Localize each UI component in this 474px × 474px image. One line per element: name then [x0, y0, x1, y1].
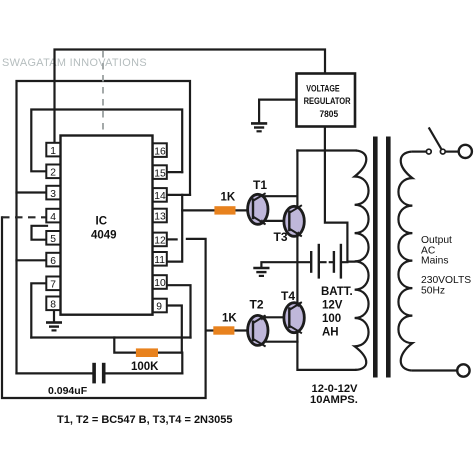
svg-text:14: 14	[154, 191, 166, 202]
svg-text:0.094uF: 0.094uF	[48, 385, 88, 397]
wire T2 emitter to T4 base	[263, 316, 289, 318]
ground at battery minus	[253, 268, 269, 276]
ground below regulator wire	[251, 123, 267, 131]
svg-text:4: 4	[50, 212, 56, 223]
pin 13	[153, 209, 167, 223]
wire T1 emitter to T3 base	[263, 220, 290, 222]
svg-text:SWAGATAM INNOVATIONS: SWAGATAM INNOVATIONS	[2, 57, 147, 69]
switch pivot circle	[440, 149, 445, 154]
svg-text:BATT.: BATT.	[321, 286, 353, 298]
svg-text:8: 8	[50, 300, 56, 311]
svg-text:12V: 12V	[322, 299, 343, 311]
pin 11	[153, 252, 167, 266]
svg-text:12-0-12V: 12-0-12V	[312, 383, 359, 395]
svg-text:2: 2	[50, 168, 56, 179]
resistor R3 100K	[136, 348, 158, 357]
pin 16	[153, 143, 167, 157]
pin 12	[153, 233, 167, 247]
pin 5	[46, 231, 60, 245]
wire battery internal and right	[320, 261, 348, 263]
wire bus top to primary coil top	[297, 149, 355, 151]
wire pin14	[167, 194, 190, 196]
svg-text:4049: 4049	[91, 230, 117, 242]
svg-text:10: 10	[154, 278, 166, 289]
svg-text:VOLTAGE: VOLTAGE	[306, 83, 339, 94]
wire T1 collector to bus	[264, 195, 298, 197]
wire regulator bottom down to battery plus	[325, 127, 355, 262]
pin 10	[153, 275, 167, 289]
IC 4049 body	[61, 136, 153, 315]
svg-text:7805: 7805	[320, 108, 339, 119]
svg-text:T4: T4	[281, 289, 295, 303]
svg-text:5: 5	[50, 234, 56, 245]
wire pin9 down to 100K right and capacitor	[167, 306, 182, 353]
svg-text:1: 1	[50, 146, 56, 157]
wire T2 collector to bus	[264, 341, 298, 343]
wire top line pin1 to voltage regulator	[55, 50, 326, 142]
transformer secondary winding	[398, 152, 412, 371]
wire pin6	[17, 259, 48, 261]
svg-text:Mains: Mains	[421, 256, 448, 267]
svg-text:15: 15	[154, 168, 166, 179]
svg-text:13: 13	[154, 212, 166, 223]
dashed horizontal to pin4	[2, 216, 47, 218]
svg-text:3: 3	[50, 189, 56, 200]
wire regulator left to ground	[259, 100, 296, 123]
svg-text:100K: 100K	[131, 361, 159, 373]
wire pin3	[17, 191, 48, 193]
wire bus bottom to primary coil bottom	[298, 369, 356, 371]
svg-text:16: 16	[154, 146, 166, 157]
wire line3 pin15 to pin2	[31, 110, 182, 173]
wire pin10	[167, 285, 191, 337]
wire pin12 stub	[167, 238, 177, 240]
transformer primary winding	[355, 151, 369, 370]
pin 4	[46, 209, 60, 223]
wire bottom rail pin7 to pin10	[31, 336, 190, 338]
wire collector bus vertical	[296, 151, 298, 370]
wire 100K left leg	[114, 338, 136, 353]
dashed vertical from top line	[102, 51, 104, 210]
wire battery left to bus and ground3	[261, 262, 310, 267]
wire 1K no2 right to T2 base	[236, 329, 253, 331]
wire secondary bottom to terminal	[411, 369, 456, 371]
pin 3	[46, 186, 60, 200]
output terminal bottom	[457, 364, 469, 376]
wire capacitor right	[106, 372, 183, 374]
transistor T2	[248, 315, 268, 346]
voltage regulator U2 7805 box	[297, 74, 356, 127]
svg-text:1K: 1K	[222, 313, 237, 325]
transistor T4	[284, 302, 304, 333]
svg-text:T2: T2	[250, 298, 264, 312]
resistor R1 1K (top)	[214, 206, 235, 214]
resistor R2 1K (bottom)	[213, 326, 234, 334]
svg-text:9: 9	[156, 302, 162, 313]
svg-text:IC: IC	[96, 216, 108, 228]
ground below pin 8	[46, 323, 62, 331]
svg-text:AH: AH	[322, 326, 339, 338]
svg-text:50Hz: 50Hz	[421, 285, 445, 296]
svg-text:T1: T1	[253, 178, 267, 192]
wire pin8 to ground1	[53, 310, 55, 322]
wire switch to top terminal	[446, 151, 459, 153]
svg-text:12: 12	[154, 236, 166, 247]
svg-text:10AMPS.: 10AMPS.	[310, 394, 358, 406]
pin 6	[46, 253, 60, 267]
wire 1K no1 left	[182, 209, 214, 211]
wire 100K right	[158, 353, 182, 374]
wire secondary top to switch	[411, 151, 426, 153]
pin 15	[153, 165, 167, 179]
wire line2 pin14 to pin3 pin6	[17, 81, 191, 373]
switch lever	[429, 127, 442, 149]
svg-text:11: 11	[154, 255, 165, 266]
wire pin7 down to bottom rail	[31, 283, 47, 337]
output terminal top	[459, 145, 472, 158]
pin 2	[46, 165, 60, 179]
pin 9	[153, 299, 167, 313]
svg-text:T3: T3	[274, 230, 288, 244]
pin 8	[46, 297, 60, 311]
wire pin4 pin5 bracket	[32, 226, 48, 240]
transistor T1	[248, 193, 268, 224]
svg-text:6: 6	[50, 256, 56, 267]
wire pin15	[167, 171, 182, 173]
svg-text:T1, T2 = BC547 B, T3,T4 = 2N30: T1, T2 = BC547 B, T3,T4 = 2N3055	[57, 414, 232, 426]
wire 1K no2 left from outer loop	[206, 329, 214, 331]
transistor T3	[284, 205, 304, 236]
transformer core	[373, 137, 378, 378]
pin 7	[46, 277, 60, 291]
wire pin14 branch down 1K and pin11	[167, 195, 182, 262]
pin 14	[153, 188, 167, 202]
capacitor C1 0.094uF	[92, 363, 105, 384]
svg-text:7: 7	[50, 280, 56, 291]
svg-text:REGULATOR: REGULATOR	[304, 95, 351, 106]
pin 1	[46, 143, 60, 157]
wire 1K no1 right to T1 base	[236, 209, 253, 211]
battery B1	[310, 244, 342, 279]
switch contact circle	[426, 149, 431, 154]
wire capacitor left	[17, 372, 93, 374]
svg-text:1K: 1K	[221, 191, 236, 203]
svg-text:100: 100	[322, 313, 341, 325]
wire pin12 jump to outer loop	[2, 217, 206, 398]
